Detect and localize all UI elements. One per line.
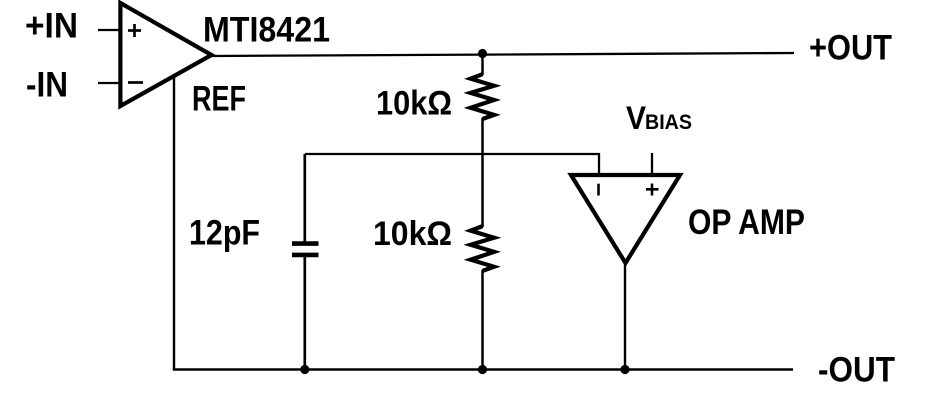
svg-text:-IN: -IN xyxy=(26,66,68,105)
svg-text:10kΩ: 10kΩ xyxy=(376,85,452,123)
svg-text:BIAS: BIAS xyxy=(645,111,692,134)
svg-text:V: V xyxy=(626,100,647,136)
svg-text:10kΩ: 10kΩ xyxy=(373,215,452,253)
svg-text:MTI8421: MTI8421 xyxy=(203,11,330,50)
svg-text:+IN: +IN xyxy=(25,7,78,46)
svg-text:REF: REF xyxy=(192,80,246,119)
svg-text:OP AMP: OP AMP xyxy=(688,203,805,242)
svg-text:12pF: 12pF xyxy=(189,214,260,253)
svg-text:-OUT: -OUT xyxy=(818,351,895,390)
svg-text:+OUT: +OUT xyxy=(809,29,892,68)
